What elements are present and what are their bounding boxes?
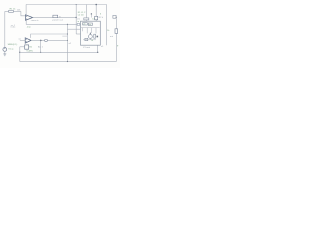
mark inside box right bbox=[97, 36, 99, 38]
source box B1 bbox=[25, 45, 29, 49]
junction x67 on y24 wire bbox=[67, 24, 68, 25]
wire V1 bottom bbox=[4, 51, 6, 54]
probe ellipse on U2 output bbox=[44, 39, 47, 41]
ground bbox=[3, 54, 6, 56]
svg-text:SINE(0 1): SINE(0 1) bbox=[8, 44, 18, 46]
wire drop to op-amp U1 top bbox=[25, 5, 27, 15]
junction at fb2 end bbox=[67, 33, 68, 34]
wire above motor bbox=[89, 33, 91, 35]
wire below motor bbox=[89, 38, 91, 40]
wire V1 to input rail bbox=[4, 11, 6, 47]
svg-text:o1: o1 bbox=[101, 46, 104, 48]
small box inside lower bbox=[85, 38, 88, 40]
voltage source V1 bbox=[3, 48, 7, 52]
junction bbox=[97, 52, 98, 53]
box internal rect B bbox=[88, 23, 92, 25]
svg-text:o2: o2 bbox=[69, 43, 72, 45]
svg-text:X1 mot: X1 mot bbox=[83, 46, 90, 49]
component R4 on right wire bbox=[115, 29, 118, 34]
op-amp U1 bbox=[26, 15, 33, 20]
wire vertical x67.4 bbox=[66, 24, 68, 61]
tiny component on y24 wire bbox=[77, 23, 80, 25]
box internal rail bbox=[81, 27, 100, 29]
wire U2 input bbox=[20, 39, 25, 41]
wire into B1 bbox=[20, 46, 25, 48]
svg-text:L2 1m: L2 1m bbox=[78, 15, 84, 17]
U2 input marks bbox=[26, 39, 27, 42]
subcircuit box X1 bbox=[81, 21, 101, 45]
wire vertical x76 bbox=[75, 5, 77, 35]
faint label line left of x67 bbox=[62, 35, 67, 37]
wire top feedback rail bbox=[26, 4, 107, 6]
stub below dot bbox=[90, 14, 92, 18]
wire vertical left x19.8 bbox=[19, 47, 21, 62]
pin dot on net flag bbox=[116, 17, 117, 18]
V1 plus mark bbox=[4, 48, 5, 49]
svg-text:AC 1: AC 1 bbox=[38, 45, 44, 48]
wire into box left pin bbox=[67, 28, 80, 30]
resistor inside box bbox=[94, 34, 96, 38]
resistor R3 bbox=[84, 18, 89, 20]
junction bbox=[40, 40, 42, 42]
resistor R1 bbox=[9, 10, 14, 12]
svg-text:.meas tr: .meas tr bbox=[31, 19, 39, 22]
wire mid horizontal y52.3 bbox=[20, 45, 98, 52]
svg-text:V1 ac: V1 ac bbox=[8, 48, 14, 50]
svg-text:R2 k: R2 k bbox=[99, 17, 104, 19]
box internal verticals bbox=[83, 28, 96, 34]
capacitor C1 bbox=[95, 16, 98, 20]
wire pin into box at y34 bbox=[76, 33, 80, 35]
svg-text:.param x=1: .param x=1 bbox=[52, 18, 64, 21]
net flag right side bbox=[113, 15, 116, 18]
junction above motor bbox=[90, 33, 91, 34]
junction at branch bottom bbox=[40, 52, 41, 53]
op-amp U2 bbox=[25, 38, 31, 43]
junction at output node bbox=[75, 17, 77, 19]
svg-text:g: g bbox=[117, 45, 119, 47]
junction bbox=[19, 52, 20, 53]
junction dot bbox=[91, 13, 92, 14]
wire input from left rail bbox=[5, 10, 21, 12]
junction at x67 bottom rail bbox=[67, 61, 68, 62]
svg-text:B1: B1 bbox=[29, 46, 32, 48]
svg-text:V=I(R): V=I(R) bbox=[26, 50, 33, 52]
wire right border with component bbox=[115, 18, 117, 61]
wire vertical x86 with resistor R3 bbox=[85, 5, 87, 22]
wire U1 bottom pin bbox=[26, 20, 80, 24]
svg-text:tl: tl bbox=[100, 13, 102, 16]
wire into U1 inverting input bbox=[21, 11, 26, 15]
svg-text:in: in bbox=[77, 21, 79, 23]
wire U2 output bbox=[31, 39, 67, 41]
box lower internal wire bbox=[83, 39, 96, 41]
wire vertical x96 with capacitor C1 bbox=[95, 5, 97, 22]
box internal rect A bbox=[83, 23, 88, 25]
component on U1 output bbox=[53, 15, 58, 18]
motor circle inside box bbox=[89, 35, 93, 39]
wire right drop from top rail bbox=[106, 5, 108, 46]
svg-text:0 dec: 0 dec bbox=[11, 27, 16, 29]
svg-text:1k: 1k bbox=[107, 30, 110, 32]
svg-text:R1 1k: R1 1k bbox=[10, 8, 17, 10]
svg-text:M: M bbox=[91, 40, 93, 42]
wire U1 output bbox=[33, 16, 77, 18]
svg-text:out: out bbox=[110, 35, 113, 38]
wire branch down x40.7 bbox=[40, 40, 42, 52]
junction at out2 end bbox=[67, 40, 68, 41]
junction on top rail at x76 bbox=[76, 4, 77, 5]
wire U2 feedback bbox=[31, 34, 68, 38]
wire bottom rail bbox=[20, 61, 117, 63]
junction on top rail bbox=[95, 4, 97, 6]
U1 input marks bbox=[26, 16, 27, 19]
svg-text:.tran: .tran bbox=[26, 25, 31, 28]
